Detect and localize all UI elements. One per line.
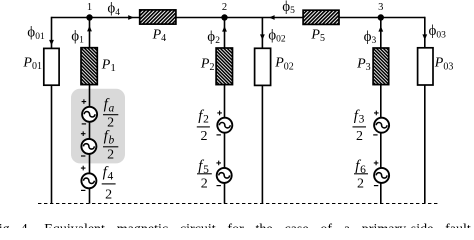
svg-text:2: 2 (357, 176, 364, 191)
permeance P02 (255, 48, 294, 85)
svg-text:P01: P01 (22, 55, 42, 72)
svg-text:P3: P3 (356, 56, 371, 73)
svg-text:2: 2 (356, 129, 363, 144)
node 3 (378, 2, 384, 21)
svg-text:f3: f3 (354, 108, 365, 126)
svg-text:1: 1 (87, 2, 92, 13)
svg-text:3: 3 (378, 2, 383, 13)
wire branch 3 (380, 18, 382, 204)
svg-text:P5: P5 (310, 28, 325, 44)
mmf source fa/2 (82, 97, 119, 131)
svg-text:ϕ01: ϕ01 (27, 25, 45, 42)
svg-text:P02: P02 (274, 56, 294, 73)
wire branch 2 (224, 18, 226, 204)
svg-text:2: 2 (222, 2, 227, 13)
mmf source f3/2 (353, 108, 390, 144)
svg-text:P1: P1 (101, 57, 116, 74)
svg-text:2: 2 (107, 115, 114, 130)
svg-text:ϕ1: ϕ1 (71, 28, 84, 45)
permeance P2 (200, 48, 233, 85)
svg-text:ϕ03: ϕ03 (429, 23, 447, 40)
wire left outer branch (51, 17, 53, 204)
svg-text:2: 2 (201, 129, 208, 144)
svg-text:ϕ4: ϕ4 (107, 1, 120, 18)
flux arrow phi4 (128, 15, 134, 20)
svg-text:f2: f2 (198, 108, 209, 126)
permeance P5 (303, 10, 339, 44)
wire branch 02 (261, 18, 263, 204)
svg-text:2: 2 (107, 147, 114, 162)
svg-text:ϕ2: ϕ2 (207, 29, 220, 46)
mmf source f4/2 (81, 165, 116, 203)
svg-text:P03: P03 (434, 56, 454, 73)
permeance P1 (81, 48, 116, 85)
svg-text:Equivalent magnetic circuit fo: Equivalent magnetic circuit for the case… (44, 222, 471, 228)
wire branch 1 (89, 18, 91, 204)
permeance P01 (22, 48, 59, 85)
svg-text:P4: P4 (152, 28, 167, 44)
svg-text:2: 2 (201, 176, 208, 191)
flux arrow phi03 (422, 34, 427, 40)
svg-text:ϕ02: ϕ02 (268, 27, 286, 44)
flux arrow phi1 (87, 26, 92, 32)
flux arrow phi3 (378, 26, 383, 32)
flux arrow phi01 (49, 40, 54, 46)
wire top bus (52, 17, 425, 19)
permeance P03 (418, 48, 454, 85)
mmf source f5/2 (197, 158, 232, 191)
wire right outer branch (424, 17, 426, 204)
dashed boundary line (38, 203, 438, 205)
svg-text:P2: P2 (200, 56, 215, 73)
flux arrow phi5 (269, 15, 275, 20)
svg-text:ϕ5: ϕ5 (282, 0, 295, 16)
mmf source f6/2 (354, 158, 389, 191)
svg-text:2: 2 (105, 187, 112, 202)
mmf source f2/2 (197, 108, 233, 144)
highlight box around fa/fb sources (71, 89, 125, 164)
permeance P3 (356, 48, 389, 85)
mmf source fb/2 (81, 129, 118, 163)
node 1 (86, 2, 92, 21)
svg-text:Fig. 4.: Fig. 4. (0, 222, 31, 228)
svg-text:ϕ3: ϕ3 (364, 29, 377, 46)
permeance P4 (140, 10, 176, 44)
node 2 (221, 2, 227, 21)
svg-text:f4: f4 (103, 165, 114, 183)
flux arrow phi2 (222, 26, 227, 32)
flux arrow phi02 (260, 34, 265, 40)
